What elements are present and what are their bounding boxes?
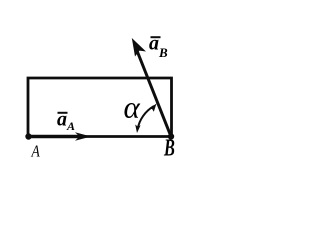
svg-text:a: a	[149, 33, 159, 55]
svg-text:B: B	[163, 136, 175, 162]
svg-text:α: α	[124, 90, 141, 125]
svg-text:A: A	[31, 142, 41, 161]
svg-text:B: B	[158, 45, 168, 60]
svg-text:A: A	[66, 119, 75, 133]
